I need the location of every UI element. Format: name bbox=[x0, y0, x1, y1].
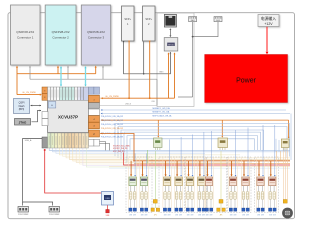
FPGA right bottom white pair bbox=[89, 139, 100, 146]
svg-text:JG001: JG001 bbox=[216, 20, 221, 22]
wire gray bus drop bbox=[156, 79, 158, 105]
IC U6 power sequencer 2 bbox=[218, 138, 228, 151]
IC U2 ethernet PHY bbox=[164, 38, 178, 51]
svg-text:0V9: 0V9 bbox=[133, 214, 136, 216]
svg-text:+: + bbox=[51, 103, 53, 107]
IC U5 power sequencer 1 bbox=[154, 138, 163, 151]
connector J9 JTAG box bbox=[15, 119, 31, 126]
svg-text:SFP+: SFP+ bbox=[145, 17, 152, 21]
svg-text:GMII: GMII bbox=[159, 72, 164, 74]
jumper right margin bbox=[283, 200, 287, 204]
wire channel fan from FPGA bottom pins bbox=[49, 148, 290, 167]
FPGA right gray cell bbox=[89, 103, 100, 109]
regulator module at x=190 bbox=[186, 135, 194, 217]
svg-text:1V8: 1V8 bbox=[206, 214, 209, 216]
svg-text:1V8: 1V8 bbox=[257, 214, 260, 216]
wire orange VCC rail from FPGA bbox=[100, 134, 290, 161]
wire channel extra pale rails bbox=[109, 166, 290, 168]
wire orange PHY stub2 bbox=[168, 54, 170, 99]
wire header J7 stem down bbox=[192, 22, 194, 97]
svg-text:VCC_3V3_PS: VCC_3V3_PS bbox=[113, 151, 125, 153]
FPGA top right blue-gray cells bbox=[89, 87, 100, 94]
wire SFP1 orange power bbox=[128, 42, 130, 99]
svg-text:VCCINT_VCC_0V85: VCCINT_VCC_0V85 bbox=[113, 146, 130, 148]
wire USB module to port bbox=[107, 205, 109, 209]
jumper column at x=155.3 bbox=[151, 151, 160, 216]
svg-text:0V9: 0V9 bbox=[246, 214, 249, 216]
svg-text:PCIE POWER: PCIE POWER bbox=[18, 214, 29, 216]
wire gray mgmt bus under QSFP bbox=[30, 78, 157, 80]
wire black pair cells right bbox=[100, 142, 106, 151]
wire orange power bus under QSFP bbox=[17, 73, 96, 75]
FPGA bottom pin row bbox=[48, 133, 89, 148]
wire gray stub QSFP2 bbox=[67, 67, 69, 80]
regulator module at x=209 bbox=[205, 131, 213, 216]
wire orange up to PHY bbox=[174, 54, 176, 99]
svg-text:1V8: 1V8 bbox=[129, 214, 132, 216]
svg-text:0V9: 0V9 bbox=[179, 214, 182, 216]
wire orange verticals right edge bbox=[283, 151, 285, 200]
regulator module at x=201.4 bbox=[197, 132, 205, 216]
wire orange right edge risers bbox=[276, 151, 278, 161]
connector J4 SFP+ 1 bbox=[122, 6, 135, 41]
net MGTAVCC rail bbox=[101, 109, 286, 111]
wire SFP2 orange power bbox=[149, 42, 151, 99]
regulator module at x=272.3 bbox=[268, 125, 276, 216]
svg-text:GL_CN_PWR0: GL_CN_PWR0 bbox=[22, 92, 36, 94]
svg-text:88E1111: 88E1111 bbox=[168, 45, 174, 47]
wire JTAG to FPGA bbox=[32, 111, 42, 122]
jumper column at x=221 bbox=[217, 151, 226, 216]
wire orange power rail to sequencers bbox=[101, 119, 289, 121]
svg-text:1V8: 1V8 bbox=[187, 214, 190, 216]
svg-text:0V9: 0V9 bbox=[273, 214, 276, 216]
svg-text:0V9: 0V9 bbox=[202, 214, 205, 216]
regulator module at x=245.5 bbox=[241, 128, 249, 217]
regulator module at x=132.6 bbox=[128, 153, 136, 216]
svg-text:Power: Power bbox=[236, 78, 257, 85]
FPGA top pin row cells bbox=[48, 87, 89, 100]
wire nest blue staples bbox=[115, 124, 290, 157]
svg-text:1V8: 1V8 bbox=[175, 214, 178, 216]
svg-text:(BPI): (BPI) bbox=[19, 108, 25, 111]
power module Power bbox=[205, 55, 288, 103]
svg-text:Connector 1: Connector 1 bbox=[17, 36, 34, 40]
wire orange stub QSFP3 bbox=[95, 67, 97, 74]
connector J6 RJ45 bbox=[164, 14, 176, 27]
svg-text:电源输入: 电源输入 bbox=[261, 16, 276, 21]
wire gray stub QSFP3 bbox=[102, 67, 104, 80]
svg-text:QSFP28-2X2: QSFP28-2X2 bbox=[52, 30, 70, 34]
net MGTAVTT rail bbox=[101, 113, 290, 115]
svg-text:+12V: +12V bbox=[264, 22, 273, 26]
outer frame bbox=[8, 13, 295, 219]
svg-text:1V8: 1V8 bbox=[141, 214, 144, 216]
FPGA top pin row left orange cells bbox=[42, 87, 48, 100]
wire red VBUS to USB module bbox=[45, 150, 101, 193]
wire orange drop sequencer2 bbox=[221, 120, 223, 136]
svg-text:0V9: 0V9 bbox=[168, 214, 171, 216]
svg-text:1V8: 1V8 bbox=[198, 214, 201, 216]
svg-text:USB_B: USB_B bbox=[125, 104, 132, 106]
svg-text:0V9: 0V9 bbox=[191, 214, 194, 216]
regulator module at x=260.5 bbox=[256, 125, 264, 216]
connector J2 QSFP28-2X2 Connector 2 bbox=[45, 5, 76, 65]
svg-text:0V9: 0V9 bbox=[234, 214, 237, 216]
svg-text:MGTAVCC_0V9_12A: MGTAVCC_0V9_12A bbox=[153, 107, 171, 110]
svg-text:Connector 3: Connector 3 bbox=[88, 36, 105, 40]
ethernet section container bbox=[157, 13, 194, 107]
wire header J8 to junction bbox=[193, 22, 218, 37]
svg-text:0V9: 0V9 bbox=[145, 214, 148, 216]
wire orange stub QSFP1 bbox=[16, 67, 18, 95]
svg-text:1V8: 1V8 bbox=[230, 214, 233, 216]
FPGA right orange cell 1 bbox=[89, 116, 100, 123]
svg-text:QSFP28-2X2: QSFP28-2X2 bbox=[16, 30, 34, 34]
wire RJ45 to PHY bbox=[169, 30, 171, 36]
connector J5 SFP+ 2 bbox=[143, 6, 156, 41]
wire nest verticals right bbox=[275, 139, 277, 152]
svg-text:SFP+: SFP+ bbox=[124, 17, 131, 21]
svg-text:1V8: 1V8 bbox=[164, 214, 167, 216]
svg-text:GL_CN_PWR0: GL_CN_PWR0 bbox=[105, 96, 119, 98]
FPGA left dark cell bbox=[42, 137, 48, 148]
svg-text:JP1: JP1 bbox=[220, 214, 223, 216]
FPGA right white cell bbox=[89, 109, 100, 115]
svg-text:JP1: JP1 bbox=[154, 214, 157, 216]
watermark logo circle bbox=[282, 208, 293, 219]
svg-text:Connector 2: Connector 2 bbox=[52, 36, 69, 40]
svg-text:0V9: 0V9 bbox=[210, 214, 213, 216]
wire red VCCINT rail bbox=[124, 153, 290, 166]
regulator module at x=178.6 bbox=[174, 137, 182, 216]
svg-text:1V8: 1V8 bbox=[269, 214, 272, 216]
wire SFP1 black data to PHY bbox=[124, 42, 171, 74]
svg-text:0V9: 0V9 bbox=[261, 214, 264, 216]
wire gray from FPGA right gray cell bbox=[100, 105, 158, 107]
USB port red bbox=[106, 210, 109, 213]
wire SFP2 black data bbox=[143, 42, 145, 74]
wire orange drop sequencer3 bbox=[288, 120, 290, 138]
wire power input red arrow bbox=[266, 27, 268, 52]
wire gray stub QSFP1 bbox=[29, 67, 31, 80]
svg-text:USB: USB bbox=[105, 198, 110, 200]
regulator module at x=233 bbox=[229, 130, 237, 216]
wire USB_A drop left bbox=[22, 202, 24, 206]
wire green sysmon vertical bbox=[146, 150, 148, 163]
svg-text:PCIE POWER: PCIE POWER bbox=[49, 214, 60, 216]
FPGA right orange cell 3 bbox=[89, 130, 100, 137]
regulator module at x=167.1 bbox=[163, 140, 171, 217]
connector J3 QSFP28-2X2 Connector 3 bbox=[81, 5, 110, 65]
FPGA U1 XCVU37P body bbox=[48, 100, 89, 133]
wire orange drop sequencer1 bbox=[157, 120, 159, 136]
FPGA pin cell tick marks bbox=[44, 90, 95, 146]
svg-text:USB_A: USB_A bbox=[25, 139, 32, 142]
FPGA right orange cell GL_CN_PWR bbox=[89, 95, 100, 102]
connector J7 header JTAG bbox=[189, 17, 197, 22]
FPGA right orange cell 2 bbox=[89, 122, 100, 128]
svg-text:VCCINT_1V8_PS: VCCINT_1V8_PS bbox=[113, 148, 128, 150]
connector J8 header GPIO bbox=[214, 17, 222, 22]
IC U4 USB module bbox=[102, 192, 114, 206]
IC U7 power sequencer 3 bbox=[281, 139, 289, 151]
FPGA left white cells bbox=[42, 112, 48, 126]
wire QSPI to FPGA bbox=[31, 105, 42, 107]
FPGA left plus cell bbox=[48, 102, 56, 109]
IC U3 QSPI flash bbox=[14, 99, 30, 114]
connector J10 PCIe power 1 bbox=[18, 207, 29, 217]
wire cyan QSFP2 data bbox=[60, 67, 62, 86]
wire header stem to PHY bbox=[178, 96, 193, 98]
svg-text:XCVU37P: XCVU37P bbox=[58, 115, 78, 120]
svg-text:1V8: 1V8 bbox=[242, 214, 245, 216]
svg-text:MGTAVTT_1V2_12A: MGTAVTT_1V2_12A bbox=[153, 111, 171, 114]
power input label +12V bbox=[258, 15, 279, 27]
svg-text:JTAG: JTAG bbox=[19, 120, 27, 124]
svg-text:QSFP28-2X2: QSFP28-2X2 bbox=[87, 30, 105, 34]
wire USB_A black bbox=[23, 139, 53, 206]
wire orange into FPGA left bbox=[17, 94, 41, 96]
connector J11 PCIe power 2 bbox=[49, 207, 60, 217]
junction header stems bbox=[192, 36, 194, 38]
wire cyan QSFP3 data bbox=[85, 67, 87, 86]
wire orange stub QSFP2 bbox=[57, 67, 59, 74]
svg-text:MGTVCCAUX_1V8_2A: MGTVCCAUX_1V8_2A bbox=[153, 114, 173, 117]
power group dashed boxes bbox=[126, 157, 152, 213]
wire orange power bus lower bbox=[101, 97, 175, 99]
regulator module at x=144 bbox=[140, 153, 148, 216]
connector J1 QSFP28-2X2 Connector 1 bbox=[11, 5, 41, 65]
wire orange secondary rail bbox=[134, 162, 290, 164]
